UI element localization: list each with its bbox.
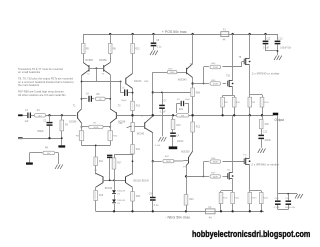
svg-text:2 x IRF940 or similar: 2 x IRF940 or similar	[251, 163, 279, 167]
svg-text:330R: 330R	[213, 176, 218, 178]
svg-text:R44: R44	[211, 63, 216, 65]
svg-text:R13: R13	[136, 106, 141, 108]
svg-text:MJE350: MJE350	[181, 151, 190, 153]
svg-text:R43: R43	[189, 199, 194, 201]
svg-text:MJE340: MJE340	[178, 78, 187, 81]
svg-text:100R: 100R	[93, 127, 98, 129]
svg-text:T2: T2	[87, 74, 90, 76]
svg-text:100uF 63v: 100uF 63v	[280, 47, 292, 49]
svg-text:R16: R16	[176, 125, 181, 127]
svg-text:C1: C1	[25, 110, 29, 112]
svg-text:R104: R104	[263, 197, 269, 199]
svg-text:R4: R4	[45, 148, 49, 150]
svg-text:4A: 4A	[209, 217, 212, 220]
svg-text:T5: T5	[118, 106, 121, 108]
svg-text:1N4148: 1N4148	[117, 200, 125, 202]
svg-text:BC556: BC556	[86, 59, 94, 62]
svg-text:R3: R3	[65, 124, 69, 126]
svg-text:47K: 47K	[181, 115, 185, 117]
svg-text:F2: F2	[209, 206, 212, 209]
svg-text:Output: Output	[275, 118, 285, 122]
svg-text:C7: C7	[164, 101, 168, 103]
svg-text:56pF: 56pF	[121, 100, 127, 102]
svg-text:R7: R7	[93, 123, 97, 125]
svg-text:All other resistors are 0.5 wa: All other resistors are 0.5 watt metal f…	[18, 93, 67, 97]
svg-text:C8: C8	[177, 99, 181, 101]
svg-text:100uF 63v: 100uF 63v	[285, 207, 296, 209]
svg-text:T10: T10	[226, 76, 231, 78]
svg-text:100nF: 100nF	[264, 140, 271, 142]
svg-text:BC546: BC546	[69, 121, 77, 123]
svg-text:C16: C16	[285, 198, 290, 200]
svg-text:C6: C6	[156, 40, 160, 42]
svg-text:R14: R14	[136, 149, 141, 151]
svg-text:0.1u: 0.1u	[154, 205, 159, 207]
svg-text:2 x IRF540 or similar: 2 x IRF540 or similar	[252, 71, 280, 75]
svg-text:R11: R11	[99, 161, 104, 163]
svg-text:R10: R10	[113, 136, 118, 138]
svg-text:0.1uF: 0.1uF	[155, 145, 161, 147]
svg-text:T11: T11	[243, 155, 247, 157]
svg-text:R98: R98	[236, 102, 241, 104]
svg-text:4A: 4A	[223, 39, 226, 42]
svg-text:240R: 240R	[166, 161, 171, 163]
svg-text:R42: R42	[165, 156, 170, 158]
svg-text:VR1: VR1	[118, 123, 123, 125]
svg-text:BC556: BC556	[99, 59, 107, 62]
svg-text:F1: F1	[223, 29, 226, 32]
svg-text:C5: C5	[122, 88, 126, 90]
svg-text:10R: 10R	[264, 124, 269, 126]
svg-text:10pF: 10pF	[185, 99, 191, 101]
svg-text:D1: D1	[117, 194, 121, 196]
svg-text:R5: R5	[86, 47, 90, 50]
svg-text:on small heatsinks: on small heatsinks	[18, 70, 41, 74]
svg-text:R86: R86	[196, 92, 201, 94]
svg-text:C2: C2	[43, 120, 47, 122]
svg-text:1uF: 1uF	[25, 121, 30, 123]
svg-text:C4: C4	[86, 94, 90, 96]
svg-text:0.1uF: 0.1uF	[274, 207, 280, 209]
svg-text:270R: 270R	[213, 84, 218, 86]
svg-text:1N4148: 1N4148	[117, 191, 125, 193]
svg-text:T12: T12	[227, 170, 232, 172]
svg-text:R97: R97	[224, 102, 229, 104]
svg-text:R39: R39	[144, 81, 149, 83]
svg-text:BD139, BD140: BD139, BD140	[134, 180, 150, 182]
svg-text:R103: R103	[251, 197, 257, 199]
svg-text:+ POS 50v max.: + POS 50v max.	[162, 30, 188, 34]
svg-text:T1: T1	[73, 106, 76, 108]
svg-text:C13: C13	[263, 131, 268, 133]
svg-text:- NEG 50v max.: - NEG 50v max.	[165, 215, 191, 219]
svg-text:R102: R102	[234, 197, 240, 199]
svg-text:R21: R21	[196, 126, 201, 128]
svg-text:R100: R100	[264, 102, 270, 104]
svg-text:R12: R12	[135, 47, 140, 50]
svg-text:R1: R1	[37, 110, 41, 112]
svg-text:R19: R19	[99, 195, 104, 197]
svg-text:T4: T4	[94, 170, 97, 172]
svg-text:BD140: BD140	[134, 81, 142, 83]
svg-text:330R: 330R	[213, 162, 218, 164]
svg-text:R101: R101	[223, 197, 229, 199]
svg-text:R41: R41	[179, 109, 184, 111]
svg-text:T8: T8	[239, 57, 242, 59]
svg-text:BC546: BC546	[137, 134, 145, 136]
svg-text:BC546: BC546	[105, 187, 113, 190]
svg-text:R6: R6	[113, 47, 117, 50]
svg-text:240R: 240R	[170, 72, 175, 74]
svg-text:T3: T3	[102, 74, 105, 76]
svg-text:R99: R99	[251, 102, 256, 104]
svg-text:C15: C15	[275, 198, 280, 200]
svg-text:C4: C4	[176, 136, 180, 138]
svg-text:100uF: 100uF	[177, 141, 184, 143]
svg-text:R18: R18	[136, 196, 141, 198]
svg-text:R8: R8	[97, 94, 101, 96]
svg-text:the main heatsink: the main heatsink	[18, 83, 40, 87]
svg-text:R40: R40	[168, 68, 173, 70]
svg-text:0.1uF: 0.1uF	[263, 47, 269, 49]
svg-text:270R: 270R	[213, 67, 218, 69]
svg-text:C12: C12	[278, 39, 283, 41]
svg-text:C11: C11	[266, 39, 271, 41]
svg-text:680pF: 680pF	[37, 131, 44, 133]
svg-text:0.1uF: 0.1uF	[160, 112, 166, 114]
svg-text:0.1u: 0.1u	[157, 47, 162, 49]
svg-text:R17: R17	[117, 163, 122, 165]
svg-text:C9: C9	[149, 194, 153, 196]
svg-text:D2: D2	[117, 203, 121, 205]
